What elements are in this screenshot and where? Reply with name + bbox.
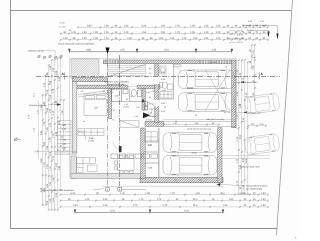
- svg-text:75: 75: [112, 119, 114, 122]
- svg-text:8.88: 8.88: [86, 49, 91, 52]
- svg-text:2.40: 2.40: [40, 158, 43, 163]
- window in top wall above stairs: [106, 60, 118, 64]
- wall: carport inner left: [158, 128, 160, 177]
- svg-text:1.75: 1.75: [133, 204, 138, 207]
- wall: garage bottom (open edge): [163, 120, 236, 127]
- svg-text:90: 90: [149, 96, 151, 99]
- section B bottom boxes: [106, 187, 146, 191]
- svg-text:6.10: 6.10: [71, 192, 76, 195]
- right dimension chains: [238, 59, 240, 195]
- svg-text:1.05: 1.05: [49, 122, 52, 127]
- svg-text:všeob: všeob: [191, 152, 196, 155]
- svg-text:1.45: 1.45: [129, 95, 133, 98]
- svg-text:1.70: 1.70: [236, 180, 239, 185]
- svg-text:45: 45: [150, 119, 152, 122]
- section line B vertical: [119, 55, 121, 188]
- svg-text:1.65: 1.65: [46, 107, 49, 112]
- svg-text:90: 90: [149, 67, 151, 70]
- svg-text:1.05: 1.05: [46, 200, 49, 205]
- bedroom door arc: [77, 131, 86, 140]
- svg-text:1.55: 1.55: [46, 127, 49, 132]
- svg-text:45: 45: [225, 66, 227, 69]
- svg-text:1.45: 1.45: [46, 145, 49, 150]
- svg-text:1.05: 1.05: [145, 192, 150, 195]
- wall: garage bottom (left hatched): [145, 121, 163, 126]
- svg-text:parkovací stání návrh: parkovací stání návrh: [240, 166, 261, 169]
- outdoor parked car 1 (slanted): [244, 92, 280, 116]
- wall: right exterior: [232, 60, 236, 128]
- svg-text:1.50: 1.50: [46, 164, 49, 169]
- svg-text:1.75: 1.75: [163, 204, 168, 207]
- section line B2 vertical: [107, 54, 109, 188]
- svg-text:venkovní stání: venkovní stání: [244, 81, 258, 84]
- svg-text:1.30: 1.30: [46, 89, 49, 94]
- car 3 (carport): [163, 132, 217, 154]
- svg-text:1.60: 1.60: [46, 183, 49, 188]
- svg-text:1.90: 1.90: [261, 204, 266, 207]
- svg-text:2.25: 2.25: [55, 192, 58, 197]
- wall: left exterior lower: [71, 156, 77, 178]
- svg-text:2.45: 2.45: [103, 198, 108, 201]
- svg-text:60: 60: [103, 90, 105, 93]
- door gaps in separator: [155, 76, 160, 84]
- svg-text:1.80: 1.80: [43, 121, 46, 126]
- svg-text:2.30: 2.30: [55, 162, 58, 167]
- svg-text:3.25: 3.25: [58, 76, 61, 81]
- svg-text:1.70: 1.70: [175, 25, 180, 28]
- wardrobe: [78, 129, 104, 136]
- svg-text:1.05: 1.05: [71, 31, 76, 34]
- svg-text:4.25: 4.25: [124, 103, 128, 106]
- left margin circle mark: [14, 137, 21, 141]
- svg-text:5.91: 5.91: [164, 49, 169, 52]
- svg-text:1.70: 1.70: [236, 158, 239, 163]
- svg-text:3.05: 3.05: [242, 157, 245, 162]
- svg-text:1.50: 1.50: [82, 31, 87, 34]
- svg-text:1.00: 1.00: [63, 37, 68, 40]
- entry steps: [35, 150, 77, 155]
- svg-text:1.48: 1.48: [40, 105, 43, 110]
- svg-text:1.25: 1.25: [204, 37, 209, 40]
- svg-text:od loď mycích stání pro auta: od loď mycích stání pro auta: [187, 127, 212, 130]
- washer: [160, 66, 173, 98]
- car 2 (garage): [179, 92, 235, 113]
- svg-text:1.55: 1.55: [52, 67, 55, 72]
- svg-text:1.45: 1.45: [173, 179, 177, 182]
- svg-text:1.45: 1.45: [240, 192, 245, 195]
- svg-text:30 p: 30 p: [193, 198, 198, 201]
- svg-text:1.25: 1.25: [216, 31, 221, 34]
- svg-text:vodoměr: vodoměr: [149, 107, 157, 110]
- svg-text:2.30: 2.30: [55, 100, 58, 105]
- svg-text:1.75: 1.75: [43, 162, 46, 167]
- svg-text:1.70: 1.70: [236, 136, 239, 141]
- svg-text:5.05: 5.05: [245, 158, 248, 163]
- page border top: [11, 10, 292, 12]
- svg-text:1.20: 1.20: [216, 37, 221, 40]
- right annotation: venkovni stani 2: [224, 111, 262, 114]
- svg-text:2.30: 2.30: [251, 123, 255, 126]
- svg-text:1.50: 1.50: [161, 25, 166, 28]
- svg-text:1.60: 1.60: [52, 177, 55, 182]
- svg-text:1.40: 1.40: [43, 101, 46, 106]
- svg-text:3.35: 3.35: [212, 49, 217, 52]
- wall: porch bottom: [72, 78, 107, 82]
- svg-text:2.05: 2.05: [146, 91, 150, 94]
- svg-text:6.70: 6.70: [184, 209, 189, 212]
- svg-text:1.50: 1.50: [161, 31, 166, 34]
- svg-text:Ø 5.30: Ø 5.30: [187, 87, 194, 90]
- dim ticks between outdoor cars: [247, 125, 267, 127]
- svg-text:1.30: 1.30: [111, 109, 115, 112]
- svg-text:5.28: 5.28: [142, 25, 147, 28]
- svg-text:5.10: 5.10: [245, 92, 248, 97]
- svg-text:um. objekt vjezdu: um. objekt vjezdu: [246, 187, 263, 190]
- svg-text:1.25: 1.25: [148, 112, 152, 115]
- svg-text:-0.34: -0.34: [162, 89, 166, 92]
- svg-text:45: 45: [175, 120, 177, 123]
- basin: [168, 84, 174, 90]
- bath partitions: [122, 89, 143, 102]
- top dimension chain row 2: [60, 32, 269, 34]
- svg-text:vjezd: vjezd: [151, 115, 156, 118]
- wall: bedroom right: [109, 89, 112, 119]
- svg-text:1.70: 1.70: [175, 31, 180, 34]
- svg-text:2.45: 2.45: [103, 204, 108, 207]
- dining table: [115, 156, 134, 174]
- svg-text:1.75: 1.75: [157, 198, 162, 201]
- legend boxes: [144, 102, 147, 110]
- svg-text:2.45: 2.45: [73, 204, 78, 207]
- svg-text:1.90: 1.90: [261, 198, 266, 201]
- svg-text:1.05: 1.05: [49, 80, 52, 85]
- wall: house-garage separator: [155, 64, 159, 123]
- page border right (skewed scan edge): [277, 0, 293, 235]
- left dimension chains: [42, 94, 44, 206]
- top overall dimension with arrows: [68, 49, 233, 54]
- wall: garage lintel (striped): [199, 60, 231, 64]
- svg-text:30 p: 30 p: [193, 204, 198, 207]
- right annotation: venkovni stani 1: [232, 81, 258, 84]
- svg-text:1.45: 1.45: [46, 72, 49, 77]
- svg-text:90: 90: [149, 115, 151, 118]
- svg-text:(-0.05): (-0.05): [123, 106, 129, 109]
- page border bottom: [11, 228, 278, 230]
- svg-text:1.20: 1.20: [49, 181, 52, 186]
- svg-text:1.00: 1.00: [193, 37, 198, 40]
- carport dim row: [163, 123, 220, 125]
- wc room door: [174, 65, 181, 67]
- wall: bath right: [142, 89, 145, 111]
- door gap in bedroom top wall: [128, 85, 137, 89]
- svg-text:3.05: 3.05: [87, 25, 92, 28]
- garage X mark: [205, 70, 230, 112]
- kitchen door arc: [114, 143, 121, 150]
- svg-text:2.50: 2.50: [142, 31, 147, 34]
- wall: top main: [103, 60, 199, 64]
- svg-text:3.75: 3.75: [120, 49, 125, 52]
- left numbers block: [58, 121, 72, 152]
- svg-text:1.25: 1.25: [82, 37, 87, 40]
- roof overhang outline: [70, 58, 237, 177]
- svg-text:1.75: 1.75: [139, 198, 144, 201]
- svg-text:1.40: 1.40: [120, 192, 125, 195]
- svg-text:1.55: 1.55: [190, 25, 195, 28]
- svg-text:(-0.05): (-0.05): [88, 140, 94, 143]
- svg-text:1.05: 1.05: [136, 106, 140, 109]
- wall: bottom right: [140, 177, 223, 183]
- wall: carport right: [218, 128, 222, 183]
- svg-text:1.05: 1.05: [49, 94, 52, 99]
- bottom overall dimension: [74, 209, 224, 214]
- ceiling slope lines: [78, 90, 114, 95]
- svg-text:80: 80: [212, 122, 214, 125]
- terrace lines right: [222, 154, 270, 156]
- entrance arrow: [143, 112, 150, 118]
- svg-text:3.40: 3.40: [58, 165, 61, 170]
- svg-text:1.45: 1.45: [134, 115, 138, 118]
- svg-text:90: 90: [126, 98, 128, 101]
- svg-text:mozek kanálové čistší kanaliza: mozek kanálové čistší kanalizace: [42, 189, 75, 192]
- svg-text:1.05: 1.05: [93, 31, 98, 34]
- top dimension chain row 1: [77, 26, 269, 28]
- svg-text:Hs 1.05: Hs 1.05: [59, 26, 66, 29]
- svg-text:1.90: 1.90: [61, 110, 64, 115]
- svg-text:1.10: 1.10: [49, 137, 52, 142]
- svg-text:5.91: 5.91: [198, 179, 202, 182]
- svg-text:30 p: 30 p: [220, 192, 225, 195]
- svg-text:Hs 90: Hs 90: [60, 22, 65, 25]
- closet: [112, 89, 122, 102]
- section line A-A: [36, 75, 280, 77]
- dark column: [119, 146, 122, 152]
- wall: bedroom top: [77, 85, 160, 89]
- svg-text:1.60: 1.60: [43, 141, 46, 146]
- wall: left exterior upper: [72, 82, 77, 153]
- svg-text:1.25: 1.25: [151, 90, 155, 93]
- svg-text:mozek nasvorált Couberov podes: mozek nasvorált Couberov podestěta: [58, 43, 95, 46]
- svg-text:3.10: 3.10: [242, 117, 245, 122]
- svg-text:u díl: u díl: [252, 56, 256, 59]
- bottom dimension row 1: [60, 193, 269, 195]
- svg-text:1.20: 1.20: [49, 65, 52, 70]
- bottom dimension row 3: [60, 206, 269, 208]
- car 4 (carport): [163, 154, 217, 176]
- svg-text:1.55: 1.55: [190, 31, 195, 34]
- svg-text:1.75: 1.75: [170, 192, 175, 195]
- svg-text:30: 30: [164, 106, 166, 109]
- outdoor parked car 2 (slanted): [244, 132, 280, 156]
- svg-text:1.05: 1.05: [159, 37, 164, 40]
- porch (light hatch): [71, 59, 99, 78]
- svg-text:interiéru 16.0l. arch: interiéru 16.0l. arch: [107, 83, 126, 86]
- svg-text:1.25: 1.25: [216, 25, 221, 28]
- wc room partition: [159, 64, 174, 99]
- staircase treads: [108, 64, 146, 78]
- svg-text:20 p 2×: 20 p 2×: [237, 41, 245, 44]
- svg-text:1.75: 1.75: [43, 82, 46, 87]
- svg-text:2.45: 2.45: [239, 103, 242, 108]
- svg-text:1.20: 1.20: [170, 37, 175, 40]
- svg-text:1.90: 1.90: [127, 37, 132, 40]
- pavement line below building: [103, 185, 223, 187]
- svg-text:1.05: 1.05: [93, 37, 98, 40]
- svg-text:45: 45: [83, 120, 85, 123]
- svg-text:1.75: 1.75: [52, 133, 55, 138]
- hall door arcs: [77, 103, 155, 150]
- svg-text:1.10: 1.10: [252, 50, 255, 55]
- svg-text:1.40: 1.40: [124, 25, 129, 28]
- svg-text:stání pro 2 os. auta: stání pro 2 os. auta: [206, 118, 224, 121]
- svg-text:8.85: 8.85: [161, 102, 165, 105]
- svg-text:2.45: 2.45: [40, 130, 43, 135]
- svg-text:1.30: 1.30: [204, 25, 209, 28]
- svg-text:-0.34: -0.34: [161, 110, 165, 113]
- svg-text:1.90: 1.90: [261, 192, 266, 195]
- svg-text:1.50: 1.50: [52, 197, 55, 202]
- svg-text:2.0: 2.0: [149, 72, 152, 75]
- wall: bottom left: [71, 173, 143, 178]
- svg-text:1.90: 1.90: [229, 198, 234, 201]
- top-right leader notes: [229, 24, 279, 44]
- svg-text:2.05: 2.05: [195, 122, 199, 125]
- svg-text:1.15: 1.15: [104, 37, 109, 40]
- top dimension chain row 3: [60, 39, 269, 41]
- utility symbols: [37, 55, 62, 59]
- sofa: [77, 158, 97, 173]
- hinge mark: [142, 100, 144, 103]
- svg-text:45: 45: [81, 90, 83, 93]
- svg-text:1.10: 1.10: [49, 166, 52, 171]
- svg-text:1.40: 1.40: [124, 31, 129, 34]
- kitchen counter top: [120, 121, 157, 143]
- svg-text:1.25: 1.25: [104, 31, 109, 34]
- svg-text:6.70: 6.70: [110, 209, 115, 212]
- svg-text:1.30: 1.30: [204, 31, 209, 34]
- svg-text:el. rozv.: el. rozv.: [149, 103, 156, 106]
- bottom dimension row 2: [60, 199, 269, 201]
- svg-text:1.35: 1.35: [49, 198, 52, 203]
- svg-text:1.90: 1.90: [223, 204, 228, 207]
- svg-text:2.30: 2.30: [260, 123, 264, 126]
- svg-text:30: 30: [195, 114, 197, 117]
- svg-text:7.36: 7.36: [89, 137, 94, 140]
- svg-text:30: 30: [69, 29, 71, 32]
- svg-text:nucené hlavně budoucí: nucené hlavně budoucí: [246, 184, 268, 187]
- svg-text:2.35: 2.35: [55, 70, 58, 75]
- svg-text:1.70: 1.70: [52, 88, 55, 93]
- kitchen lower cabinets row: [111, 154, 158, 158]
- svg-text:4.05: 4.05: [195, 192, 200, 195]
- cabinet marks: [160, 92, 172, 99]
- svg-text:1.20: 1.20: [182, 37, 187, 40]
- wc: [160, 82, 163, 88]
- svg-text:2.30: 2.30: [239, 134, 242, 139]
- svg-text:1.30: 1.30: [104, 25, 109, 28]
- svg-text:1.05: 1.05: [49, 151, 52, 156]
- svg-text:překl 160: překl 160: [209, 61, 216, 64]
- car 1 (garage): [179, 69, 235, 90]
- svg-text:1.10: 1.10: [252, 65, 255, 70]
- svg-text:1.45: 1.45: [85, 198, 90, 201]
- bed: [84, 94, 107, 116]
- wall: mid vertical lower: [141, 128, 146, 178]
- svg-text:1.70: 1.70: [52, 110, 55, 115]
- svg-text:SCHODY, VOLT hmotného: SCHODY, VOLT hmotného: [104, 80, 130, 83]
- page border left: [10, 0, 12, 229]
- svg-text:1.05: 1.05: [242, 184, 245, 189]
- svg-text:1.70: 1.70: [52, 155, 55, 160]
- svg-text:1.05: 1.05: [49, 108, 52, 113]
